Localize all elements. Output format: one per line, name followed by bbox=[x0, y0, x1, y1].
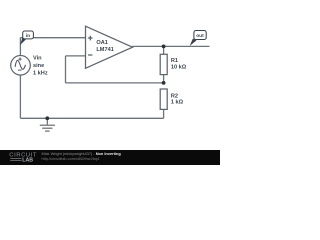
svg-text:LAB: LAB bbox=[22, 158, 33, 164]
wire: in node vertical to source top bbox=[19, 38, 21, 56]
CircuitLab logo bbox=[9, 153, 37, 164]
junction node B feedback/R1/R2 bbox=[162, 81, 166, 85]
voltage source V1 Vin bbox=[11, 56, 31, 76]
wire: feedback horizontal to node B bbox=[66, 82, 164, 84]
junction node ground rail bbox=[45, 116, 49, 120]
svg-text:10 kΩ: 10 kΩ bbox=[171, 64, 187, 70]
resistor R2 bbox=[160, 89, 167, 109]
label R1 10 kOhm bbox=[171, 58, 187, 70]
node flag out bbox=[190, 31, 207, 46]
svg-text:out: out bbox=[196, 33, 204, 39]
wire: R1 top stub bbox=[163, 46, 165, 54]
wire: R1 bottom stub bbox=[163, 75, 165, 83]
svg-text:sine: sine bbox=[33, 63, 44, 69]
svg-text:1 kHz: 1 kHz bbox=[33, 70, 48, 76]
wire: in node horizontal to op-amp + input bbox=[20, 37, 85, 39]
label R2 1 kOhm bbox=[171, 93, 184, 105]
svg-text:LM741: LM741 bbox=[96, 47, 113, 53]
label Vin sine 1 kHz bbox=[33, 56, 48, 77]
resistor R1 bbox=[160, 54, 167, 74]
svg-text:OA1: OA1 bbox=[96, 40, 108, 46]
svg-text:Vin: Vin bbox=[33, 56, 42, 62]
wire: R2 bottom stub bbox=[163, 109, 165, 118]
svg-text:in: in bbox=[26, 33, 30, 39]
node flag in bbox=[20, 31, 34, 45]
ground bbox=[40, 118, 55, 131]
wire: feedback vertical bbox=[65, 56, 67, 83]
junction node at output/R1 bbox=[162, 45, 166, 49]
svg-text:R2: R2 bbox=[171, 93, 178, 99]
wire: op-amp output to out node bbox=[132, 45, 210, 47]
svg-text:1 kΩ: 1 kΩ bbox=[171, 100, 184, 106]
wire: source bottom to bottom rail bbox=[19, 75, 21, 118]
footer watermark bar bbox=[0, 150, 220, 165]
wire: bottom ground rail bbox=[20, 117, 163, 119]
wire: op-amp - input bbox=[66, 55, 86, 57]
svg-text:http://circuitlab.com/c662thw2: http://circuitlab.com/c662thw2bq4 bbox=[42, 156, 101, 161]
op-amp OA1 LM741 bbox=[86, 26, 133, 68]
svg-text:R1: R1 bbox=[171, 58, 178, 64]
